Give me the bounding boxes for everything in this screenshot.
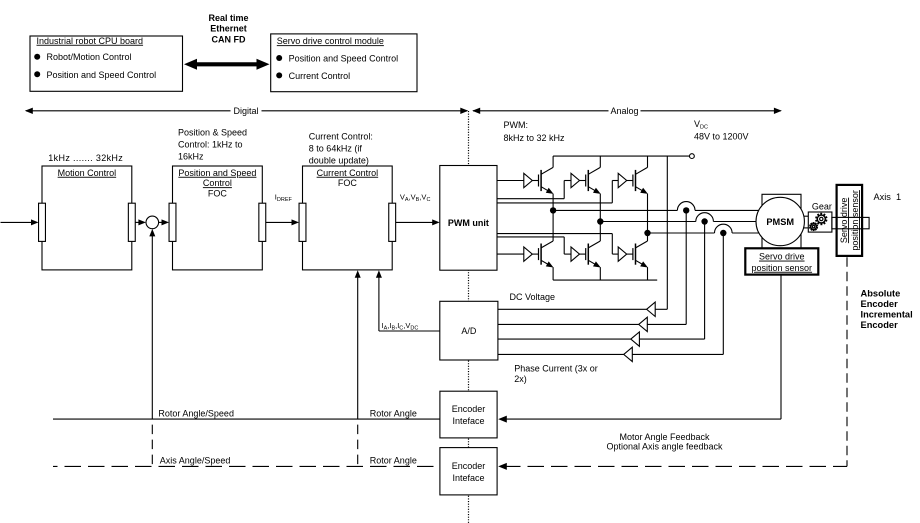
box: Encoder Inteface 1 [440, 391, 497, 438]
amplifier U3 phase B [631, 332, 640, 346]
wire: amplifier 4 output to A/D [498, 353, 624, 355]
driver + IGBT Q4 bottom leg B [571, 247, 580, 261]
svg-text:Optional Axis angle feedback: Optional Axis angle feedback [606, 442, 723, 452]
span arrow: Analog [473, 110, 781, 112]
bullet: Robot/Motion Control [34, 54, 40, 60]
svg-text:Inteface: Inteface [452, 416, 484, 426]
current sensor dot phase B [701, 218, 707, 224]
wire: DC voltage sense from top rail to amplifier [666, 156, 668, 309]
port: Position Speed input [169, 203, 176, 241]
svg-text:8 to 64kHz (if: 8 to 64kHz (if [309, 143, 363, 153]
wire: Current Control to PWM unit [396, 221, 434, 223]
svg-text:Encoder: Encoder [861, 320, 899, 330]
wire: rotor angle feedback into Current Control [357, 276, 359, 419]
wire: phase B current sense down [704, 222, 706, 340]
svg-text:8kHz to 32 kHz: 8kHz to 32 kHz [504, 133, 566, 143]
shaft motor to gear [801, 215, 808, 217]
driver + IGBT Q6 bottom leg C [618, 247, 627, 261]
driver + IGBT Q2 bottom leg A [524, 247, 533, 261]
gear icon small [816, 227, 818, 229]
motor frame square [762, 194, 801, 249]
svg-text:Encoder: Encoder [452, 461, 486, 471]
axis shaft through sensor [832, 217, 869, 228]
port: Motion Control output [128, 203, 135, 241]
svg-text:Servo drive control module: Servo drive control module [277, 36, 384, 46]
driver + IGBT Q3 top leg B [571, 173, 580, 187]
svg-text:Current Control: Current Control [289, 71, 351, 81]
svg-text:Industrial robot CPU board: Industrial robot CPU board [37, 36, 144, 46]
svg-text:Axis Angle/Speed: Axis Angle/Speed [160, 456, 231, 466]
svg-text:Inteface: Inteface [452, 473, 484, 483]
amplifier U1 DC voltage [647, 302, 656, 316]
svg-text:Motion Control: Motion Control [58, 168, 117, 178]
wire: gate drive T3 [497, 202, 612, 204]
wire: current feedback into Current Control with Ia Ib Ic Vdc [379, 330, 440, 332]
bullet: Current Control [276, 72, 282, 78]
svg-text:Analog: Analog [610, 106, 638, 116]
svg-text:FOC: FOC [338, 178, 357, 188]
svg-text:16kHz: 16kHz [178, 151, 204, 161]
wire: phase A to motor with current sensor [553, 209, 677, 211]
svg-text:Gear: Gear [812, 202, 832, 212]
svg-text:Encoder: Encoder [861, 299, 899, 309]
wire: input arrow into Motion Control [1, 221, 33, 223]
svg-text:position sensor: position sensor [752, 263, 813, 273]
wire: speed feedback up to summing junction [151, 235, 153, 420]
port: Motion Control input [39, 203, 46, 241]
motor PMSM circle [756, 197, 804, 245]
wire: axis angle feedback dashed from axis sensor down [846, 257, 848, 466]
svg-text:48V to 1200V: 48V to 1200V [694, 132, 749, 142]
svg-text:Robot/Motion Control: Robot/Motion Control [47, 52, 132, 62]
gear icon large [825, 219, 827, 222]
svg-text:Absolute: Absolute [861, 288, 901, 298]
driver + IGBT Q5 top leg C [618, 173, 627, 187]
svg-text:IA,IB,IC,VDC: IA,IB,IC,VDC [382, 321, 419, 332]
port: Current Control output [389, 203, 396, 241]
svg-text:2x): 2x) [514, 374, 527, 384]
svg-text:Rotor Angle/Speed: Rotor Angle/Speed [158, 408, 234, 418]
svg-text:Incremental: Incremental [861, 309, 913, 319]
box: Current Control [303, 166, 393, 270]
node: phase B junction [597, 218, 603, 224]
wire: dashed link axis feedback to summing branch [151, 419, 153, 466]
wire: Position Speed to Current Control, Idref [266, 221, 294, 223]
summing junction circle [146, 216, 159, 229]
box: PWM unit [440, 166, 497, 271]
box: Industrial robot CPU board [30, 36, 183, 91]
svg-text:Current Control: Current Control [317, 168, 379, 178]
svg-text:CAN FD: CAN FD [212, 35, 246, 45]
wire: gate drive T2 [497, 198, 564, 200]
driver + IGBT Q1 top leg A [524, 173, 533, 187]
wire: phase C to motor with current sensor [648, 232, 715, 234]
svg-text:FOC: FOC [208, 189, 227, 199]
wire: amplifier 1 output to A/D [498, 308, 647, 310]
wire: phase C current sense down [722, 233, 724, 354]
svg-text:double update): double update) [309, 155, 369, 165]
svg-text:A/D: A/D [461, 326, 477, 336]
svg-text:Axis 1: Axis 1 [874, 192, 902, 202]
svg-text:PWM:: PWM: [504, 120, 529, 130]
thick double-headed arrow between CPU board and servo module [194, 62, 258, 66]
svg-text:Digital: Digital [233, 106, 258, 116]
wire: gate drive B3 [497, 233, 612, 235]
svg-text:1kHz ....... 32kHz: 1kHz ....... 32kHz [48, 153, 123, 163]
node: phase A junction [550, 207, 556, 213]
svg-text:IDREF: IDREF [275, 193, 293, 204]
svg-text:PMSM: PMSM [766, 217, 794, 227]
wire: axis angle/speed dashed to controllers [53, 465, 440, 467]
wire: axis angle feedback dashed into Encoder Inteface 2 [504, 465, 847, 467]
wire: summing junction to Position Speed Control [159, 221, 164, 223]
svg-text:Motor Angle Feedback: Motor Angle Feedback [619, 432, 710, 442]
wire: rotor angle/speed to controllers [53, 418, 440, 420]
svg-text:Rotor Angle: Rotor Angle [370, 456, 417, 466]
wire: amplifier 3 output to A/D [498, 338, 631, 340]
wire: gate drive T1 [497, 180, 524, 182]
port: Current Control input [299, 203, 306, 241]
node: phase C junction [644, 230, 650, 236]
svg-text:position sensor: position sensor [850, 190, 860, 251]
wire: DC+ top rail [553, 155, 690, 157]
svg-text:PWM unit: PWM unit [448, 218, 489, 228]
svg-text:Position & Speed: Position & Speed [178, 127, 247, 137]
svg-text:Real time: Real time [208, 13, 248, 23]
wire: dashed link rotor angle branch [357, 419, 359, 466]
wire: gate drive B1 [497, 253, 524, 255]
svg-text:Current Control:: Current Control: [309, 131, 373, 141]
svg-text:VA,VB,VC: VA,VB,VC [400, 193, 431, 204]
wire: gate drive B2 [497, 236, 564, 238]
box: A/D [440, 301, 498, 360]
svg-text:Rotor Angle: Rotor Angle [370, 408, 417, 418]
svg-text:Servo drive: Servo drive [839, 198, 849, 244]
wire: motor angle feedback from position sensor down [780, 275, 782, 420]
bullet: Position and Speed Control [34, 71, 40, 77]
svg-text:Position and Speed Control: Position and Speed Control [47, 70, 157, 80]
box: Encoder Inteface 2 [440, 448, 497, 495]
svg-text:Control: 1kHz to: Control: 1kHz to [178, 139, 243, 149]
wire: phase B to motor with current sensor [600, 221, 696, 223]
amplifier U2 phase A [639, 317, 648, 331]
svg-text:VDC: VDC [694, 119, 708, 131]
svg-text:Servo drive: Servo drive [759, 252, 805, 262]
wire: motor angle feedback into Encoder Inteface 1 [504, 418, 781, 420]
box: Servo drive control module [271, 34, 417, 92]
port: Position Speed output [259, 203, 266, 241]
box: Servo drive position sensor (axis, rotated) [837, 185, 863, 256]
svg-text:Encoder: Encoder [452, 404, 486, 414]
wire: phase A current sense down [685, 210, 687, 324]
wire: Motion Control to summing junction [135, 221, 140, 223]
wire: DC- bottom rail [553, 279, 657, 281]
svg-text:Phase Current (3x or: Phase Current (3x or [514, 363, 598, 373]
box: Servo drive position sensor (under motor) [745, 248, 818, 274]
amplifier U4 phase C [624, 347, 633, 361]
current sensor dot phase A [683, 207, 689, 213]
bullet: Position and Speed Control [276, 55, 282, 61]
svg-text:Ethernet: Ethernet [210, 24, 247, 34]
box: Motion Control [42, 166, 132, 270]
svg-text:Position and Speed: Position and Speed [178, 168, 256, 178]
box: Position and Speed Control [173, 166, 263, 270]
current sensor dot phase C [720, 230, 726, 236]
svg-text:DC Voltage: DC Voltage [510, 292, 556, 302]
terminal: Vdc [690, 154, 695, 159]
wire: amplifier 2 output to A/D [498, 323, 639, 325]
span arrow: Digital [26, 110, 467, 112]
box: Gear [808, 212, 832, 232]
svg-text:Position and Speed Control: Position and Speed Control [289, 53, 399, 63]
svg-text:Control: Control [203, 178, 232, 188]
digital/analog boundary dotted line [468, 111, 470, 523]
